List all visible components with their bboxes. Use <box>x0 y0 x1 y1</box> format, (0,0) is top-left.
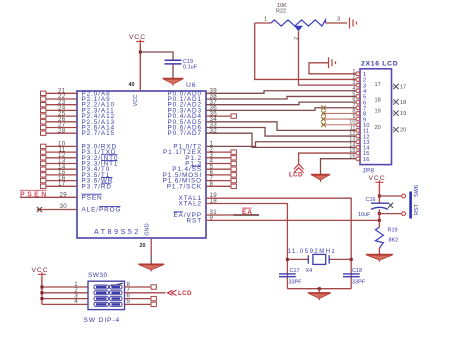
wire R22 pin1 to LCD pin 2 <box>255 23 356 79</box>
connector pad P2.1 <box>41 97 46 101</box>
SW30 corner mark <box>111 283 123 286</box>
svg-text:2X16 LCD: 2X16 LCD <box>361 61 398 68</box>
connector pad P3.3 <box>41 161 46 165</box>
wire P0.7 (32) to LCD pin 14 <box>206 133 356 147</box>
crystal X4 left lead <box>287 258 308 260</box>
connector pad P3.6 <box>41 178 46 182</box>
wire PSEN net <box>20 196 77 198</box>
svg-text:R22: R22 <box>276 9 286 15</box>
wire P2.6 to pad <box>46 127 77 129</box>
connector pad SW30 pin 6 <box>151 296 156 300</box>
LCD pin circle 9 <box>356 117 360 121</box>
no-connect stub LCD pin 10 <box>322 124 356 126</box>
connector pad P1.6 <box>231 178 236 182</box>
wire P0.5 (34) to LCD pin 11 <box>206 122 356 131</box>
junction crystal left <box>286 258 289 261</box>
wire P3.7 to pad <box>46 185 77 187</box>
microcontroller U6 AT89S52 box <box>77 91 206 238</box>
wire EA (31) <box>206 214 259 216</box>
svg-text:20: 20 <box>400 128 406 134</box>
junction SW30 rail 2 <box>40 291 43 294</box>
LCD pin circle 16 <box>356 157 360 161</box>
no-connect X on LCD pin 7 <box>321 105 326 110</box>
wire P0.6 (33) to LCD pin 12 <box>206 128 356 137</box>
SW6 bottom contact circle <box>402 212 406 216</box>
wire SW30 pin 7 to LCD port <box>125 292 166 294</box>
no-connect X LCD pin 9 <box>321 117 326 122</box>
ground below LCD pin 16 <box>311 174 330 176</box>
wire LCD pin 16 to ground <box>321 159 356 175</box>
svg-text:0.1uF: 0.1uF <box>183 65 198 71</box>
svg-text:SW30: SW30 <box>88 272 108 279</box>
no-connect X LCD pin 10 <box>321 122 326 127</box>
svg-text:18: 18 <box>400 100 406 106</box>
svg-text:P1.7/SCK: P1.7/SCK <box>167 183 202 190</box>
crystal X4 right plate <box>328 255 330 263</box>
no-connect stub LCD pin 17 <box>392 86 395 88</box>
junction RST wire <box>378 219 381 222</box>
svg-text:VCC: VCC <box>133 95 139 107</box>
wire P3.6 to pad <box>46 180 77 182</box>
connector pad P2.2 <box>41 103 46 107</box>
no-connect stub LCD pin 20 <box>392 129 395 131</box>
LCD pin circle 4 <box>356 89 360 93</box>
LCD pin circle 10 <box>356 123 360 127</box>
LCD pin circle 11 <box>356 129 360 133</box>
svg-text:4: 4 <box>74 298 78 305</box>
svg-text:C17: C17 <box>290 268 300 274</box>
svg-text:U6: U6 <box>186 82 196 89</box>
svg-text:PSEN: PSEN <box>20 192 49 199</box>
svg-text:PSEN: PSEN <box>82 194 103 201</box>
wire RST (9) to reset circuit <box>206 219 379 221</box>
junction crystal ground <box>318 287 321 290</box>
junction VCC/C19 <box>139 51 142 54</box>
wire SW30 pin 6 <box>125 298 152 300</box>
no-connect X LCD pin 19 <box>393 111 398 116</box>
junction C16 bottom / SW6 bottom <box>378 212 381 215</box>
svg-text:19: 19 <box>375 109 381 115</box>
wire P1.2 stub to pad <box>206 157 231 159</box>
crystal X4 left plate <box>307 255 309 263</box>
wire to SW6 bottom contact <box>379 213 401 215</box>
wire P2.7 to pad <box>46 132 77 134</box>
svg-text:17: 17 <box>375 82 381 88</box>
svg-text:RST: RST <box>187 217 202 224</box>
wire VCC branch to C19 <box>140 52 173 60</box>
wire VCC to reset node <box>378 184 380 196</box>
wire P3.5 to pad <box>46 174 77 176</box>
capacitor C16 (polarized) <box>371 202 388 204</box>
wire VCC rail to SW30 <box>41 276 43 304</box>
no-connect X LCD pin 17 <box>393 84 398 89</box>
wire P0.3 (36) to LCD pin 7 <box>206 108 356 111</box>
wire P2.3 to pad <box>46 109 77 111</box>
port symbol LCD (chevrons) <box>294 164 304 173</box>
connector pad P3.0 <box>41 144 46 148</box>
SW6 top contact circle <box>402 194 406 198</box>
wire ALE/PROG stub <box>37 209 77 211</box>
connector pad P1.3 <box>231 161 236 165</box>
svg-text:LCD: LCD <box>289 172 303 179</box>
no-connect X LCD pin 18 <box>393 99 398 104</box>
svg-text:RST: RST <box>414 203 420 215</box>
no-connect stub LCD pin 8 <box>322 112 356 114</box>
wire U6 pin 20 GND <box>150 238 152 255</box>
wire SW30 pin 8 <box>125 286 152 288</box>
ground below R19 <box>366 254 393 256</box>
no-connect X LCD pin 8 <box>321 111 326 116</box>
LCD pin circle 6 <box>356 100 360 104</box>
no-connect X on ALE/PROG <box>37 207 42 212</box>
connector pad P3.1 <box>41 150 46 154</box>
wire P1.0 (1) to LCD pin 13 <box>206 142 356 147</box>
wire P1.1 stub to pad <box>206 151 231 153</box>
wire U6 pin 20 GND lower <box>150 255 152 264</box>
connector pad P0.4 <box>231 114 236 118</box>
connector pad SW30 pin 5 <box>151 302 156 306</box>
wire C16 to SW6 bottom node <box>378 209 380 213</box>
wire XTAL2 (18) to crystal left <box>206 204 287 289</box>
svg-text:3: 3 <box>337 17 340 23</box>
wire P0.0 (39) to LCD pin 4 <box>206 91 356 94</box>
LCD pin circle 13 <box>356 140 360 144</box>
svg-text:XTAL2: XTAL2 <box>178 201 202 208</box>
svg-text:P3.7/RD: P3.7/RD <box>82 183 112 190</box>
SW6 push button actuator bar <box>409 192 412 219</box>
LCD pin circle 7 <box>356 106 360 110</box>
connector pad P3.5 <box>41 173 46 177</box>
wire SW30 pin 1 <box>42 286 88 288</box>
connector pad P2.0 <box>41 91 46 95</box>
DIP switch SW30 box <box>88 281 125 309</box>
connector pad P1.5 <box>231 173 236 177</box>
wire P1.4 stub to pad <box>206 168 231 170</box>
SW30 switch element 3 <box>94 297 109 301</box>
no-connect stub LCD pin 9 <box>322 118 356 120</box>
svg-text:X4: X4 <box>306 268 313 274</box>
wire P2.1 to pad <box>46 98 77 100</box>
svg-text:18: 18 <box>375 97 381 103</box>
svg-text:R19: R19 <box>388 228 398 234</box>
wire P1.6 stub to pad <box>206 180 231 182</box>
LCD pin circle 2 <box>356 78 360 82</box>
wire P3.4 to pad <box>46 168 77 170</box>
svg-text:SW6: SW6 <box>414 185 420 197</box>
ground symbol (LCD pin 1) <box>329 57 336 68</box>
wire P2.4 to pad <box>46 115 77 117</box>
wire P3.2 to pad <box>46 157 77 159</box>
wire P1.5 stub to pad <box>206 174 231 176</box>
wire P1.7 stub to pad <box>206 185 231 187</box>
svg-text:C16: C16 <box>366 197 376 203</box>
svg-text:EA: EA <box>242 209 253 216</box>
wire P0.1 (38) to LCD pin 5 <box>206 96 356 99</box>
svg-text:33PF: 33PF <box>352 280 366 286</box>
junction crystal right <box>350 258 353 261</box>
svg-text:20: 20 <box>375 125 381 131</box>
capacitor C18 <box>343 273 360 275</box>
wire XTAL1 (19) to crystal right <box>206 198 351 289</box>
wire R22 wiper to LCD pin 3 <box>299 31 356 85</box>
svg-text:VCC: VCC <box>32 267 49 274</box>
svg-text:19: 19 <box>400 111 406 117</box>
capacitor C17 <box>279 273 296 275</box>
svg-text:VCC: VCC <box>369 175 386 182</box>
svg-text:VCC: VCC <box>129 34 146 41</box>
svg-text:33PF: 33PF <box>289 280 303 286</box>
connector pad P2.5 <box>41 120 46 124</box>
crystal X4 body <box>313 254 326 264</box>
no-connect stub LCD pin 19 <box>392 112 395 114</box>
SW30 switch element 4 <box>94 302 109 306</box>
crystal X4 right lead <box>329 258 351 260</box>
connector pad P2.6 <box>41 125 46 129</box>
LCD connector JP8 box <box>360 69 392 165</box>
wire LCD pin 15 to LCD port <box>299 153 356 164</box>
junction SW30 rail 1 <box>40 286 43 289</box>
wire P1.3 stub to pad <box>206 163 231 165</box>
connector pad P3.2 <box>41 156 46 160</box>
svg-text:GND: GND <box>144 223 150 235</box>
wire to crystal ground <box>318 289 320 293</box>
R22 wiper arrow <box>294 26 303 31</box>
no-connect stub LCD pin 18 <box>392 101 395 103</box>
wire P0.4 (35) stub to pad <box>206 115 231 117</box>
svg-text:AT89S52: AT89S52 <box>94 229 141 236</box>
R22 left lead wire <box>255 22 271 24</box>
wire P2.0 to pad <box>46 92 77 94</box>
wire R19 to ground <box>378 248 380 255</box>
port symbol LCD (chevrons, SW30) <box>168 290 177 295</box>
svg-text:17: 17 <box>400 85 406 91</box>
connector pad P1.4 <box>231 167 236 171</box>
wire EA darker segment <box>234 214 260 216</box>
wire SW30 pin 4 <box>42 303 88 305</box>
svg-text:10uF: 10uF <box>358 212 371 218</box>
svg-text:C18: C18 <box>352 268 362 274</box>
wire P2.5 to pad <box>46 121 77 123</box>
junction SW30 rail 3 <box>40 297 43 300</box>
junction VCC / C16 / SW6 top <box>378 195 381 198</box>
wire crystal bottom rail <box>287 288 351 290</box>
connector pad P1.7 <box>231 184 236 188</box>
svg-text:LCD: LCD <box>178 290 192 297</box>
svg-text:1: 1 <box>264 17 267 23</box>
connector pad SW30 pin 8 <box>151 285 156 289</box>
resistor R22 body <box>271 20 326 26</box>
wire P2.2 to pad <box>46 104 77 106</box>
svg-text:20: 20 <box>140 243 146 249</box>
ground below C19 <box>163 78 184 80</box>
wire to R19 <box>378 220 380 227</box>
ground at R22 pin 3 <box>350 18 357 29</box>
wire SW30 pin 5 <box>125 303 152 305</box>
wire C19 to ground <box>172 64 174 79</box>
svg-text:11.0592MHz: 11.0592MHz <box>288 249 337 255</box>
wire to SW6 top contact <box>379 195 401 197</box>
wire SW30 pin 3 <box>42 298 88 300</box>
connector pad P1.1 <box>231 150 236 154</box>
svg-text:SW DIP-4: SW DIP-4 <box>84 317 121 324</box>
svg-text:16: 16 <box>363 157 369 163</box>
SW30 switch element 1 <box>94 285 109 289</box>
wire P3.3 to pad <box>46 163 77 165</box>
connector pad P2.3 <box>41 108 46 112</box>
LCD pin circle 15 <box>356 151 360 155</box>
ground below U6 <box>138 263 164 265</box>
wire P3.0 to pad <box>46 145 77 147</box>
no-connect X LCD pin 20 <box>393 127 398 132</box>
LCD pin circle 8 <box>356 112 360 116</box>
LCD pin circle 5 <box>356 95 360 99</box>
wire ground to LCD pin 1 <box>309 63 356 74</box>
connector pad P1.2 <box>231 156 236 160</box>
LCD pin circle 12 <box>356 134 360 138</box>
LCD pin circle 3 <box>356 83 360 87</box>
ground below crystal <box>308 292 331 294</box>
wire P3.1 to pad <box>46 151 77 153</box>
no-connect X near C16 <box>388 203 393 208</box>
R22 right lead wire <box>326 22 348 24</box>
wire P0.2 (37) to LCD pin 6 <box>206 102 356 105</box>
svg-text:ALE/PROG: ALE/PROG <box>82 207 122 214</box>
wire VCC to U6 pin 40 <box>139 44 141 92</box>
wire SW30 pin 2 <box>42 292 88 294</box>
svg-text:8K2: 8K2 <box>389 238 399 244</box>
capacitor C19 <box>165 59 182 61</box>
svg-text:JP8: JP8 <box>363 168 375 175</box>
resistor R19 body <box>375 227 383 248</box>
connector pad P3.4 <box>41 167 46 171</box>
wire reset node down <box>378 214 380 221</box>
svg-text:40: 40 <box>129 82 135 88</box>
svg-text:P0.7/AD7: P0.7/AD7 <box>167 130 202 137</box>
SW30 switch element 2 <box>94 291 109 295</box>
connector pad P3.7 <box>41 184 46 188</box>
connector pad P2.4 <box>41 114 46 118</box>
svg-text:P2.7/A15: P2.7/A15 <box>82 130 116 137</box>
LCD pin circle 14 <box>356 145 360 149</box>
wire reset node to C16 <box>378 196 380 203</box>
LCD pin circle 1 <box>356 72 360 76</box>
connector pad P2.7 <box>41 131 46 135</box>
